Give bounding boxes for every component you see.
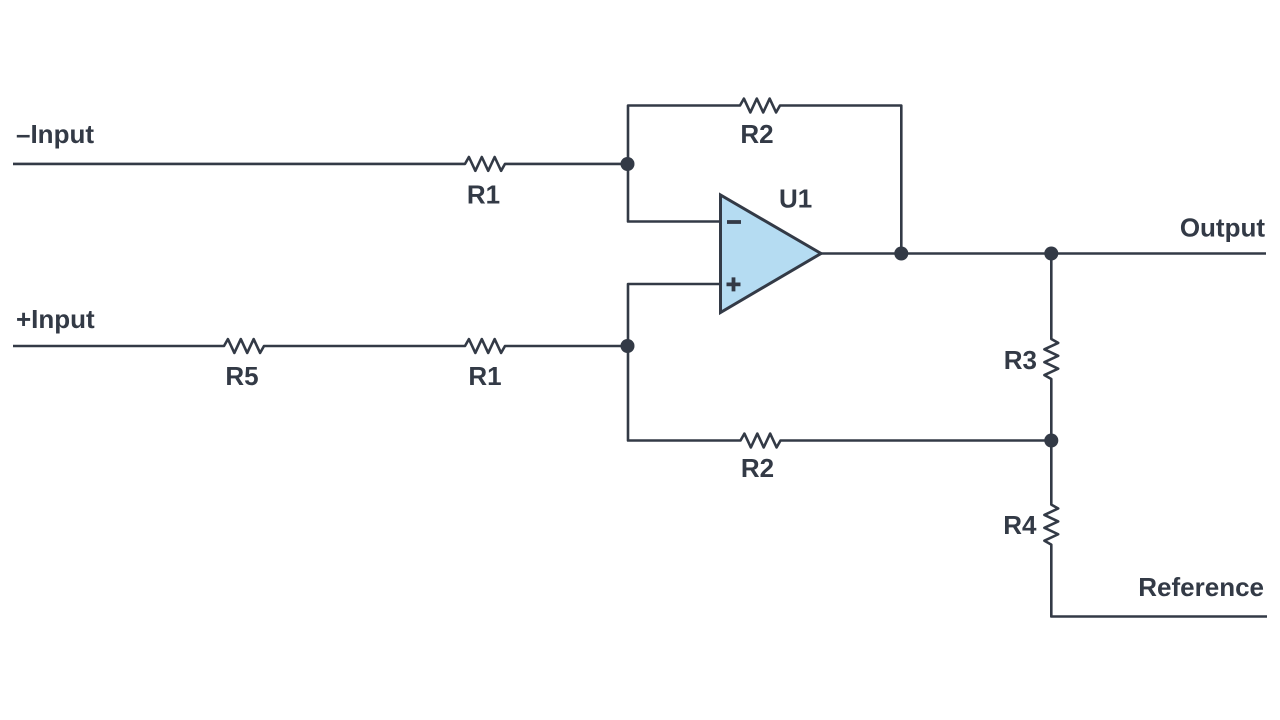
svg-text:+Input: +Input <box>16 304 95 334</box>
svg-text:R3: R3 <box>1004 345 1037 375</box>
svg-text:R2: R2 <box>741 453 774 483</box>
svg-text:R1: R1 <box>467 179 500 209</box>
svg-text:–Input: –Input <box>16 119 94 149</box>
svg-text:R1: R1 <box>468 361 501 391</box>
svg-text:R4: R4 <box>1003 510 1037 540</box>
svg-text:U1: U1 <box>779 184 812 214</box>
svg-text:R5: R5 <box>225 361 258 391</box>
svg-text:Reference: Reference <box>1138 572 1264 602</box>
svg-text:R2: R2 <box>740 119 773 149</box>
svg-text:Output: Output <box>1180 213 1266 243</box>
